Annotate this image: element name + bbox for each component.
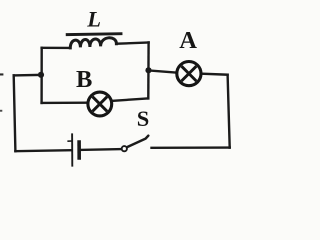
wire lamp B to right side — [113, 98, 149, 100]
wire lamp A to outer right — [202, 74, 227, 75]
battery plus tick — [67, 140, 72, 142]
node right junction — [145, 67, 151, 73]
node left junction — [38, 72, 44, 78]
svg-text:S: S — [137, 106, 150, 131]
inductor core bar — [67, 32, 121, 36]
svg-text:B: B — [76, 66, 92, 93]
svg-text:L: L — [86, 7, 101, 32]
wire bottom branch to lamp B — [42, 101, 88, 104]
lamp B — [88, 92, 112, 116]
edge artifact tick upper — [0, 73, 3, 75]
battery long plate — [71, 133, 73, 166]
switch S lever — [128, 136, 149, 147]
wire bottom left to battery — [15, 150, 70, 151]
inductor L coil — [70, 38, 116, 48]
wire battery to switch — [80, 148, 122, 151]
svg-text:A: A — [179, 27, 197, 54]
wire parallel box left side — [40, 48, 43, 103]
wire from left node to outer left — [14, 74, 41, 77]
wire top branch left lead — [42, 47, 71, 50]
edge artifact tick lower — [0, 110, 2, 112]
wire node to lamp A — [149, 70, 177, 72]
wire switch to bottom right corner — [152, 146, 230, 149]
wire parallel box right side — [147, 43, 150, 99]
battery short plate — [77, 140, 81, 160]
wire top branch right lead — [116, 43, 148, 44]
wire outer left vertical — [14, 75, 16, 151]
wire outer right vertical — [228, 75, 230, 148]
switch S pivot — [122, 146, 127, 151]
lamp A — [177, 62, 201, 86]
